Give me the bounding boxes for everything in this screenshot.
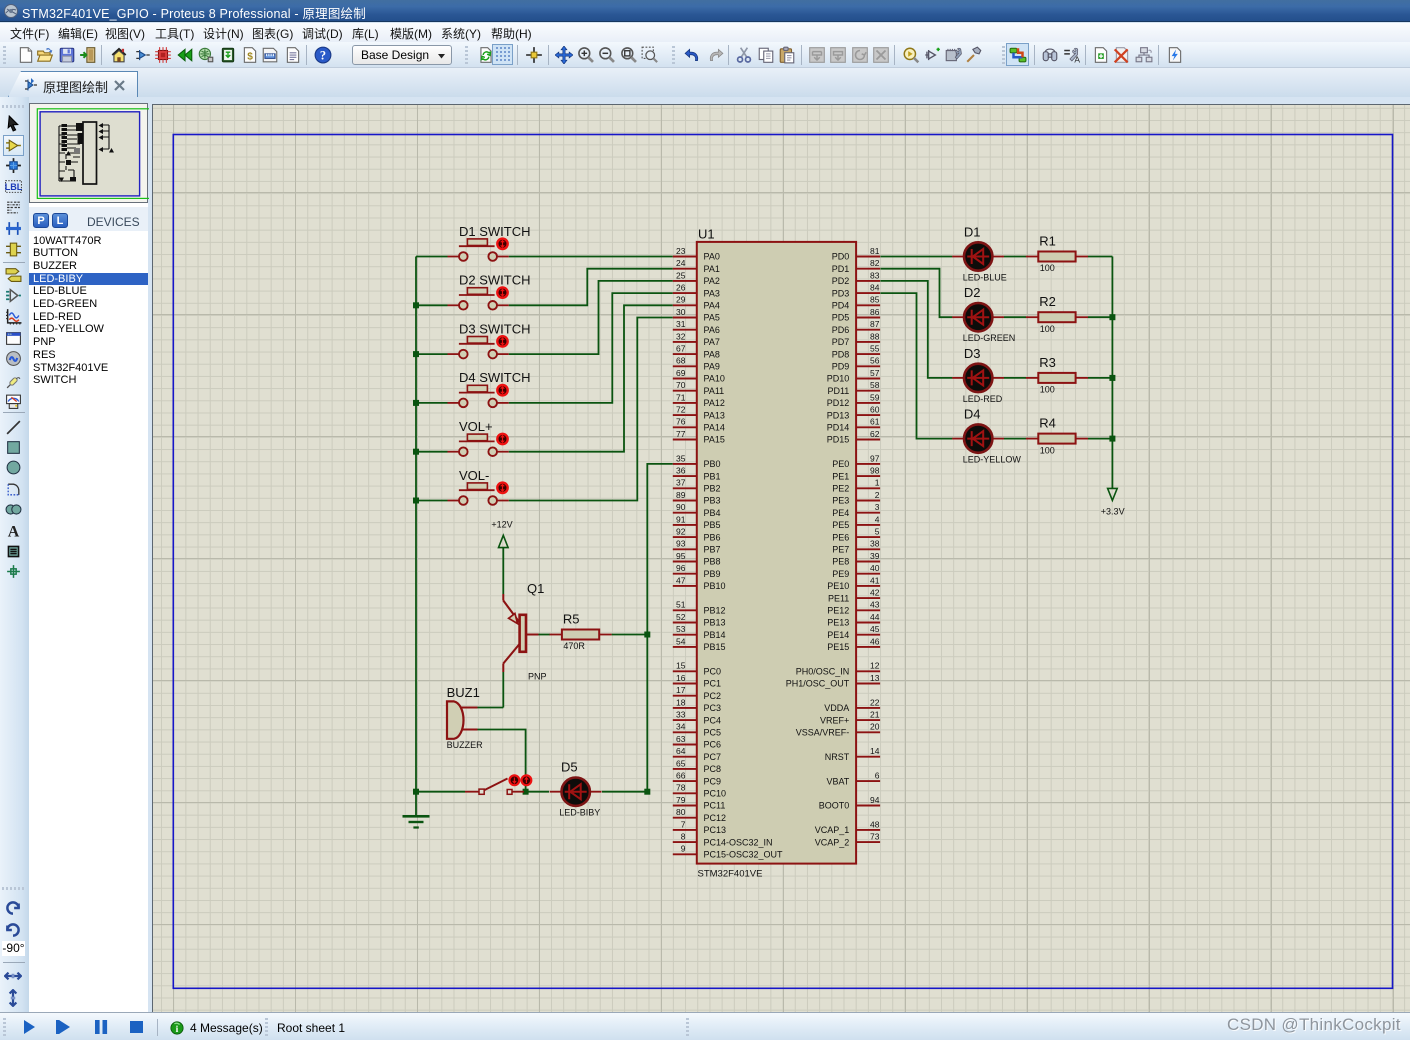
pin VCAP_1 (48) bbox=[815, 819, 880, 835]
wire buzzer pin1 bbox=[478, 707, 504, 709]
svg-text:95: 95 bbox=[676, 551, 686, 561]
pin PE4 (3) bbox=[832, 502, 880, 518]
svg-text:34: 34 bbox=[676, 722, 686, 732]
svg-text:VREF+: VREF+ bbox=[820, 715, 849, 725]
svg-text:42: 42 bbox=[870, 588, 880, 598]
svg-text:PC0: PC0 bbox=[704, 667, 722, 677]
pin PB6 (92) bbox=[673, 527, 721, 543]
svg-text:PE14: PE14 bbox=[827, 630, 849, 640]
wire PD0 to D1 LED bbox=[880, 256, 952, 258]
svg-text:92: 92 bbox=[676, 527, 686, 537]
svg-text:LED-RED: LED-RED bbox=[963, 394, 1003, 404]
wire R5 to PB0 net bbox=[612, 634, 648, 636]
svg-text:PD1: PD1 bbox=[832, 264, 850, 274]
pin PB2 (37) bbox=[673, 478, 721, 494]
pin PD6 (87) bbox=[832, 319, 880, 335]
pin PA2 (25) bbox=[673, 270, 720, 286]
transistor Q1 PNP bbox=[503, 581, 550, 682]
svg-text:PE9: PE9 bbox=[832, 569, 849, 579]
svg-text:D1 SWITCH: D1 SWITCH bbox=[459, 224, 531, 239]
svg-text:98: 98 bbox=[870, 466, 880, 476]
svg-text:R4: R4 bbox=[1039, 416, 1056, 431]
junction bbox=[413, 498, 419, 504]
svg-text:PD2: PD2 bbox=[832, 276, 850, 286]
svg-text:PE15: PE15 bbox=[827, 642, 849, 652]
pin PE13 (44) bbox=[827, 612, 880, 628]
svg-text:PE8: PE8 bbox=[832, 557, 849, 567]
svg-text:PNP: PNP bbox=[528, 672, 547, 682]
svg-text:97: 97 bbox=[870, 453, 880, 463]
svg-text:PC2: PC2 bbox=[704, 691, 722, 701]
wire R3 to +3.3V bus bbox=[1088, 377, 1112, 379]
svg-text:PD5: PD5 bbox=[832, 313, 850, 323]
svg-text:PA5: PA5 bbox=[704, 313, 720, 323]
svg-text:PC14-OSC32_IN: PC14-OSC32_IN bbox=[704, 837, 773, 847]
svg-text:78: 78 bbox=[676, 783, 686, 793]
pin PA3 (26) bbox=[673, 283, 720, 299]
svg-text:4: 4 bbox=[875, 514, 880, 524]
wire PD2 to LED D3 bbox=[880, 281, 952, 378]
wire switch row 3 feed bbox=[416, 353, 448, 355]
svg-text:81: 81 bbox=[870, 246, 880, 256]
svg-text:38: 38 bbox=[870, 539, 880, 549]
svg-text:82: 82 bbox=[870, 258, 880, 268]
svg-text:48: 48 bbox=[870, 819, 880, 829]
resistor R1 100 bbox=[1026, 234, 1088, 274]
LED D2 LED-GREEN bbox=[952, 285, 1015, 343]
wire switch 3 to pin bbox=[509, 281, 673, 354]
svg-text:PE2: PE2 bbox=[832, 484, 849, 494]
svg-text:D1: D1 bbox=[964, 225, 981, 240]
svg-text:25: 25 bbox=[676, 270, 686, 280]
power +3.3V bbox=[1108, 488, 1118, 500]
svg-text:VDDA: VDDA bbox=[824, 703, 849, 713]
wire +12V to Q1 emitter bbox=[502, 548, 504, 594]
svg-text:67: 67 bbox=[676, 344, 686, 354]
wire switch row 4 feed bbox=[416, 402, 448, 404]
pin PB12 (51) bbox=[673, 600, 726, 616]
pin PA11 (70) bbox=[673, 380, 724, 396]
pin PE5 (4) bbox=[832, 514, 880, 530]
wire switch 2 to pin bbox=[509, 269, 673, 306]
sheet border bbox=[173, 135, 1392, 989]
pin PD4 (85) bbox=[832, 295, 880, 311]
svg-text:PC1: PC1 bbox=[704, 679, 722, 689]
svg-text:VOL+: VOL+ bbox=[459, 419, 493, 434]
pin PC7 (64) bbox=[673, 746, 721, 762]
svg-text:LED-GREEN: LED-GREEN bbox=[963, 333, 1016, 343]
svg-text:PD10: PD10 bbox=[827, 374, 850, 384]
svg-text:63: 63 bbox=[676, 734, 686, 744]
svg-text:40: 40 bbox=[870, 563, 880, 573]
svg-text:69: 69 bbox=[676, 368, 686, 378]
svg-text:21: 21 bbox=[870, 710, 880, 720]
svg-text:6: 6 bbox=[875, 771, 880, 781]
pin BOOT0 (94) bbox=[819, 795, 880, 811]
resistor R4 100 bbox=[1026, 416, 1088, 456]
pin PC9 (66) bbox=[673, 771, 721, 787]
pin VREF+ (21) bbox=[820, 710, 880, 726]
pin PC10 (78) bbox=[673, 783, 726, 799]
pin PD0 (81) bbox=[832, 246, 880, 262]
svg-text:D3 SWITCH: D3 SWITCH bbox=[459, 321, 531, 336]
LED D1 LED-BLUE bbox=[952, 225, 1007, 283]
pin PA13 (72) bbox=[673, 405, 725, 421]
pin PB14 (53) bbox=[673, 624, 726, 640]
button VOL- bbox=[448, 468, 509, 505]
pin PE7 (38) bbox=[832, 539, 880, 555]
resistor R2 100 bbox=[1026, 294, 1088, 334]
svg-text:53: 53 bbox=[676, 624, 686, 634]
svg-text:PE6: PE6 bbox=[832, 532, 849, 542]
svg-text:2: 2 bbox=[875, 490, 880, 500]
pin PA14 (76) bbox=[673, 417, 725, 433]
svg-text:PC13: PC13 bbox=[704, 825, 727, 835]
svg-text:D4: D4 bbox=[964, 407, 981, 422]
svg-text:77: 77 bbox=[676, 429, 686, 439]
svg-text:PB8: PB8 bbox=[704, 557, 721, 567]
svg-text:83: 83 bbox=[870, 270, 880, 280]
pin PE3 (2) bbox=[832, 490, 880, 506]
svg-text:i: i bbox=[176, 1024, 179, 1035]
svg-text:55: 55 bbox=[870, 344, 880, 354]
pin PC5 (34) bbox=[673, 722, 721, 738]
MCU U1 STM32F401VE body bbox=[697, 242, 856, 864]
svg-text:PC12: PC12 bbox=[704, 813, 727, 823]
pin PC1 (16) bbox=[673, 673, 721, 689]
svg-text:44: 44 bbox=[870, 612, 880, 622]
wire switch row 5 feed bbox=[416, 451, 448, 453]
wire D5 row to PB0 net bbox=[602, 791, 647, 793]
svg-text:PA2: PA2 bbox=[704, 276, 720, 286]
svg-text:PD12: PD12 bbox=[827, 398, 850, 408]
bottom switch bbox=[465, 775, 531, 794]
svg-text:PB5: PB5 bbox=[704, 520, 721, 530]
svg-text:37: 37 bbox=[676, 478, 686, 488]
pin PA0 (23) bbox=[673, 246, 720, 262]
svg-text:PE11: PE11 bbox=[828, 593, 849, 603]
svg-text:87: 87 bbox=[870, 319, 880, 329]
svg-text:VCAP_2: VCAP_2 bbox=[815, 837, 850, 847]
svg-text:68: 68 bbox=[676, 356, 686, 366]
junction bbox=[523, 789, 529, 795]
svg-text:PE4: PE4 bbox=[832, 508, 849, 518]
pin PB3 (89) bbox=[673, 490, 721, 506]
svg-text:24: 24 bbox=[676, 258, 686, 268]
resistor R5 470R bbox=[550, 612, 612, 652]
svg-text:?: ? bbox=[320, 49, 326, 63]
pin PB7 (93) bbox=[673, 539, 721, 555]
svg-text:PB4: PB4 bbox=[704, 508, 721, 518]
pin PE15 (46) bbox=[827, 636, 880, 652]
svg-text:LED-BLUE: LED-BLUE bbox=[963, 273, 1007, 283]
svg-text:PC8: PC8 bbox=[704, 764, 722, 774]
svg-text:100: 100 bbox=[1040, 385, 1055, 395]
svg-text:PC11: PC11 bbox=[704, 801, 726, 811]
svg-text:22: 22 bbox=[870, 697, 880, 707]
svg-text:100: 100 bbox=[1040, 263, 1055, 273]
pin PB15 (54) bbox=[673, 636, 726, 652]
svg-text:PD9: PD9 bbox=[832, 362, 850, 372]
wire buzzer pin2 to bottom row bbox=[478, 730, 526, 792]
pin VCAP_2 (73) bbox=[815, 832, 880, 848]
svg-text:LBL: LBL bbox=[5, 182, 22, 192]
svg-text:LED-BIBY: LED-BIBY bbox=[559, 808, 600, 818]
svg-text:17: 17 bbox=[676, 685, 686, 695]
wire bus to bottom switch bbox=[416, 791, 465, 793]
svg-text:PE3: PE3 bbox=[832, 496, 849, 506]
svg-text:PE5: PE5 bbox=[832, 520, 849, 530]
svg-text:470R: 470R bbox=[563, 641, 585, 651]
svg-text:D3: D3 bbox=[964, 346, 981, 361]
wire PD3 to LED D4 bbox=[880, 293, 952, 439]
svg-text:33: 33 bbox=[676, 710, 686, 720]
svg-text:D5: D5 bbox=[561, 760, 578, 775]
pin PA6 (31) bbox=[673, 319, 720, 335]
pin PA9 (68) bbox=[673, 356, 720, 372]
svg-text:PB13: PB13 bbox=[704, 618, 726, 628]
wire Q1 collector to buzzer bbox=[502, 672, 504, 708]
svg-text:PE10: PE10 bbox=[827, 581, 849, 591]
pin PD7 (88) bbox=[832, 331, 880, 347]
pin PE2 (1) bbox=[832, 478, 880, 494]
svg-text:PA15: PA15 bbox=[704, 435, 725, 445]
svg-text:59: 59 bbox=[870, 392, 880, 402]
svg-text:29: 29 bbox=[676, 295, 686, 305]
svg-text:94: 94 bbox=[870, 795, 880, 805]
pin PD10 (57) bbox=[827, 368, 880, 384]
wire R4 to +3.3V bus bbox=[1088, 438, 1112, 440]
pin PD5 (86) bbox=[832, 307, 880, 323]
pin PB13 (52) bbox=[673, 612, 726, 628]
junction bbox=[644, 632, 650, 638]
svg-text:36: 36 bbox=[676, 466, 686, 476]
pin PC6 (63) bbox=[673, 734, 721, 750]
svg-text:16: 16 bbox=[676, 673, 686, 683]
svg-text:VSSA/VREF-: VSSA/VREF- bbox=[796, 728, 850, 738]
svg-text:64: 64 bbox=[676, 746, 686, 756]
pin PE11 (42) bbox=[828, 588, 880, 604]
svg-text:PB10: PB10 bbox=[704, 581, 726, 591]
svg-text:58: 58 bbox=[870, 380, 880, 390]
svg-text:PA11: PA11 bbox=[704, 386, 725, 396]
svg-text:13: 13 bbox=[870, 673, 880, 683]
junction bbox=[1109, 375, 1115, 381]
junction bbox=[413, 302, 419, 308]
pin PE14 (45) bbox=[827, 624, 880, 640]
svg-text:7: 7 bbox=[681, 819, 686, 829]
svg-text:+12V: +12V bbox=[491, 520, 512, 530]
svg-text:PC6: PC6 bbox=[704, 740, 722, 750]
pin PE0 (97) bbox=[832, 453, 880, 469]
svg-text:PB9: PB9 bbox=[704, 569, 721, 579]
svg-text:PC15-OSC32_OUT: PC15-OSC32_OUT bbox=[704, 850, 784, 860]
svg-text:57: 57 bbox=[870, 368, 880, 378]
svg-text:PB14: PB14 bbox=[704, 630, 726, 640]
pin PE8 (39) bbox=[832, 551, 880, 567]
svg-text:47: 47 bbox=[676, 575, 686, 585]
wire PB0 net bbox=[647, 464, 673, 792]
pin PD11 (58) bbox=[827, 380, 880, 396]
pin PD15 (62) bbox=[827, 429, 880, 445]
pin PC3 (18) bbox=[673, 697, 721, 713]
pin PB0 (35) bbox=[673, 453, 721, 469]
svg-text:73: 73 bbox=[870, 832, 880, 842]
wire LED D4 to R4 bbox=[1004, 438, 1026, 440]
svg-text:65: 65 bbox=[676, 758, 686, 768]
svg-text:90: 90 bbox=[676, 502, 686, 512]
svg-text:PD3: PD3 bbox=[832, 288, 850, 298]
svg-text:60: 60 bbox=[870, 405, 880, 415]
svg-text:PD13: PD13 bbox=[827, 410, 850, 420]
pin PE12 (43) bbox=[827, 600, 880, 616]
svg-text:70: 70 bbox=[676, 380, 686, 390]
pin PB9 (96) bbox=[673, 563, 721, 579]
svg-text:PA9: PA9 bbox=[704, 362, 720, 372]
pin VBAT (6) bbox=[826, 771, 880, 787]
pin PC11 (79) bbox=[673, 795, 726, 811]
svg-text:PD15: PD15 bbox=[827, 435, 850, 445]
svg-text:PA13: PA13 bbox=[704, 410, 725, 420]
pin PH1/OSC_OUT (13) bbox=[786, 673, 880, 689]
svg-text:PA0: PA0 bbox=[704, 252, 720, 262]
button D2 SWITCH bbox=[448, 273, 531, 310]
svg-text:PH0/OSC_IN: PH0/OSC_IN bbox=[796, 667, 850, 677]
svg-text:PC9: PC9 bbox=[704, 776, 722, 786]
svg-text:PB3: PB3 bbox=[704, 496, 721, 506]
svg-text:BOOT0: BOOT0 bbox=[819, 801, 850, 811]
svg-text:30: 30 bbox=[676, 307, 686, 317]
pin PA10 (69) bbox=[673, 368, 725, 384]
button D3 SWITCH bbox=[448, 321, 531, 358]
wire D1 SWITCH to PA0 bbox=[509, 256, 673, 258]
svg-text:PB6: PB6 bbox=[704, 532, 721, 542]
pin PC14-OSC32_IN (8) bbox=[673, 832, 773, 848]
svg-text:VOL-: VOL- bbox=[459, 468, 489, 483]
svg-text:R5: R5 bbox=[563, 612, 580, 627]
svg-text:PD7: PD7 bbox=[832, 337, 850, 347]
svg-text:Q1: Q1 bbox=[527, 581, 544, 596]
svg-text:PA14: PA14 bbox=[704, 423, 725, 433]
svg-text:9: 9 bbox=[681, 844, 686, 854]
pin PC12 (80) bbox=[673, 807, 726, 823]
pin PD14 (61) bbox=[827, 417, 880, 433]
svg-text:26: 26 bbox=[676, 283, 686, 293]
pin PE10 (41) bbox=[827, 575, 880, 591]
pin PB5 (91) bbox=[673, 514, 721, 530]
pin PA7 (32) bbox=[673, 331, 720, 347]
pin PD9 (56) bbox=[832, 356, 880, 372]
svg-text:PE13: PE13 bbox=[827, 618, 849, 628]
svg-text:62: 62 bbox=[870, 429, 880, 439]
svg-text:66: 66 bbox=[676, 771, 686, 781]
svg-text:PD14: PD14 bbox=[827, 423, 850, 433]
svg-text:71: 71 bbox=[676, 392, 686, 402]
LED D3 LED-RED bbox=[952, 346, 1004, 404]
junction bbox=[413, 351, 419, 357]
pin PC4 (33) bbox=[673, 710, 721, 726]
svg-text:56: 56 bbox=[870, 356, 880, 366]
svg-text:PB12: PB12 bbox=[704, 606, 726, 616]
button D1 SWITCH bbox=[448, 224, 531, 261]
svg-text:PB0: PB0 bbox=[704, 459, 721, 469]
svg-text:93: 93 bbox=[676, 539, 686, 549]
svg-text:PC7: PC7 bbox=[704, 752, 722, 762]
pin PA12 (71) bbox=[673, 392, 725, 408]
svg-text:88: 88 bbox=[870, 331, 880, 341]
svg-text:PA6: PA6 bbox=[704, 325, 720, 335]
buzzer BUZ1 bbox=[447, 685, 484, 750]
svg-text:LED-YELLOW: LED-YELLOW bbox=[963, 455, 1022, 465]
svg-text:15: 15 bbox=[676, 661, 686, 671]
svg-text:$: $ bbox=[247, 52, 253, 63]
svg-text:45: 45 bbox=[870, 624, 880, 634]
svg-text:3: 3 bbox=[875, 502, 880, 512]
svg-text:52: 52 bbox=[676, 612, 686, 622]
svg-text:NRST: NRST bbox=[825, 752, 850, 762]
wire switch row 6 feed bbox=[416, 500, 448, 502]
svg-text:PD11: PD11 bbox=[827, 386, 849, 396]
pin PE1 (98) bbox=[832, 466, 880, 482]
wire switch 4 to pin bbox=[509, 293, 673, 403]
wire R1 to +3.3V bus bbox=[1088, 256, 1112, 258]
pin NRST (14) bbox=[825, 746, 880, 762]
svg-text:D2: D2 bbox=[964, 285, 981, 300]
pin PB8 (95) bbox=[673, 551, 721, 567]
junction bbox=[413, 449, 419, 455]
svg-text:PC5: PC5 bbox=[704, 728, 722, 738]
svg-text:PE12: PE12 bbox=[827, 606, 849, 616]
junction bbox=[1109, 436, 1115, 442]
resistor R3 100 bbox=[1026, 355, 1088, 395]
wire R2 to +3.3V bus bbox=[1088, 316, 1112, 318]
LED D5 LED-BIBY bbox=[550, 760, 602, 818]
svg-text:PB1: PB1 bbox=[704, 471, 721, 481]
junction bbox=[413, 400, 419, 406]
junction bbox=[644, 789, 650, 795]
svg-text:PD4: PD4 bbox=[832, 301, 850, 311]
pin PA8 (67) bbox=[673, 344, 720, 360]
pin VSSA/VREF- (20) bbox=[796, 722, 880, 738]
svg-text:79: 79 bbox=[676, 795, 686, 805]
svg-text:R2: R2 bbox=[1039, 294, 1056, 309]
svg-text:PH1/OSC_OUT: PH1/OSC_OUT bbox=[786, 679, 850, 689]
svg-text:PA7: PA7 bbox=[704, 337, 720, 347]
wire +3.3V bus vertical bbox=[1111, 257, 1113, 489]
pin PB10 (47) bbox=[673, 575, 726, 591]
svg-text:43: 43 bbox=[870, 600, 880, 610]
ground bbox=[415, 792, 417, 816]
svg-text:PD0: PD0 bbox=[832, 252, 850, 262]
wire PD1 to LED D2 bbox=[880, 269, 952, 318]
svg-text:72: 72 bbox=[676, 405, 686, 415]
svg-text:54: 54 bbox=[676, 636, 686, 646]
pin PC0 (15) bbox=[673, 661, 721, 677]
svg-text:PA4: PA4 bbox=[704, 301, 720, 311]
svg-text:41: 41 bbox=[870, 575, 880, 585]
svg-text:80: 80 bbox=[676, 807, 686, 817]
svg-text:D2 SWITCH: D2 SWITCH bbox=[459, 273, 531, 288]
pin VDDA (22) bbox=[824, 697, 880, 713]
svg-text:STM32F401VE: STM32F401VE bbox=[698, 869, 763, 880]
wire switch 5 to pin bbox=[509, 305, 673, 451]
svg-text:89: 89 bbox=[676, 490, 686, 500]
svg-text:46: 46 bbox=[870, 636, 880, 646]
junction bbox=[413, 789, 419, 795]
svg-text:A: A bbox=[1074, 54, 1080, 64]
power +12V bbox=[499, 535, 509, 547]
svg-text:PC4: PC4 bbox=[704, 715, 722, 725]
